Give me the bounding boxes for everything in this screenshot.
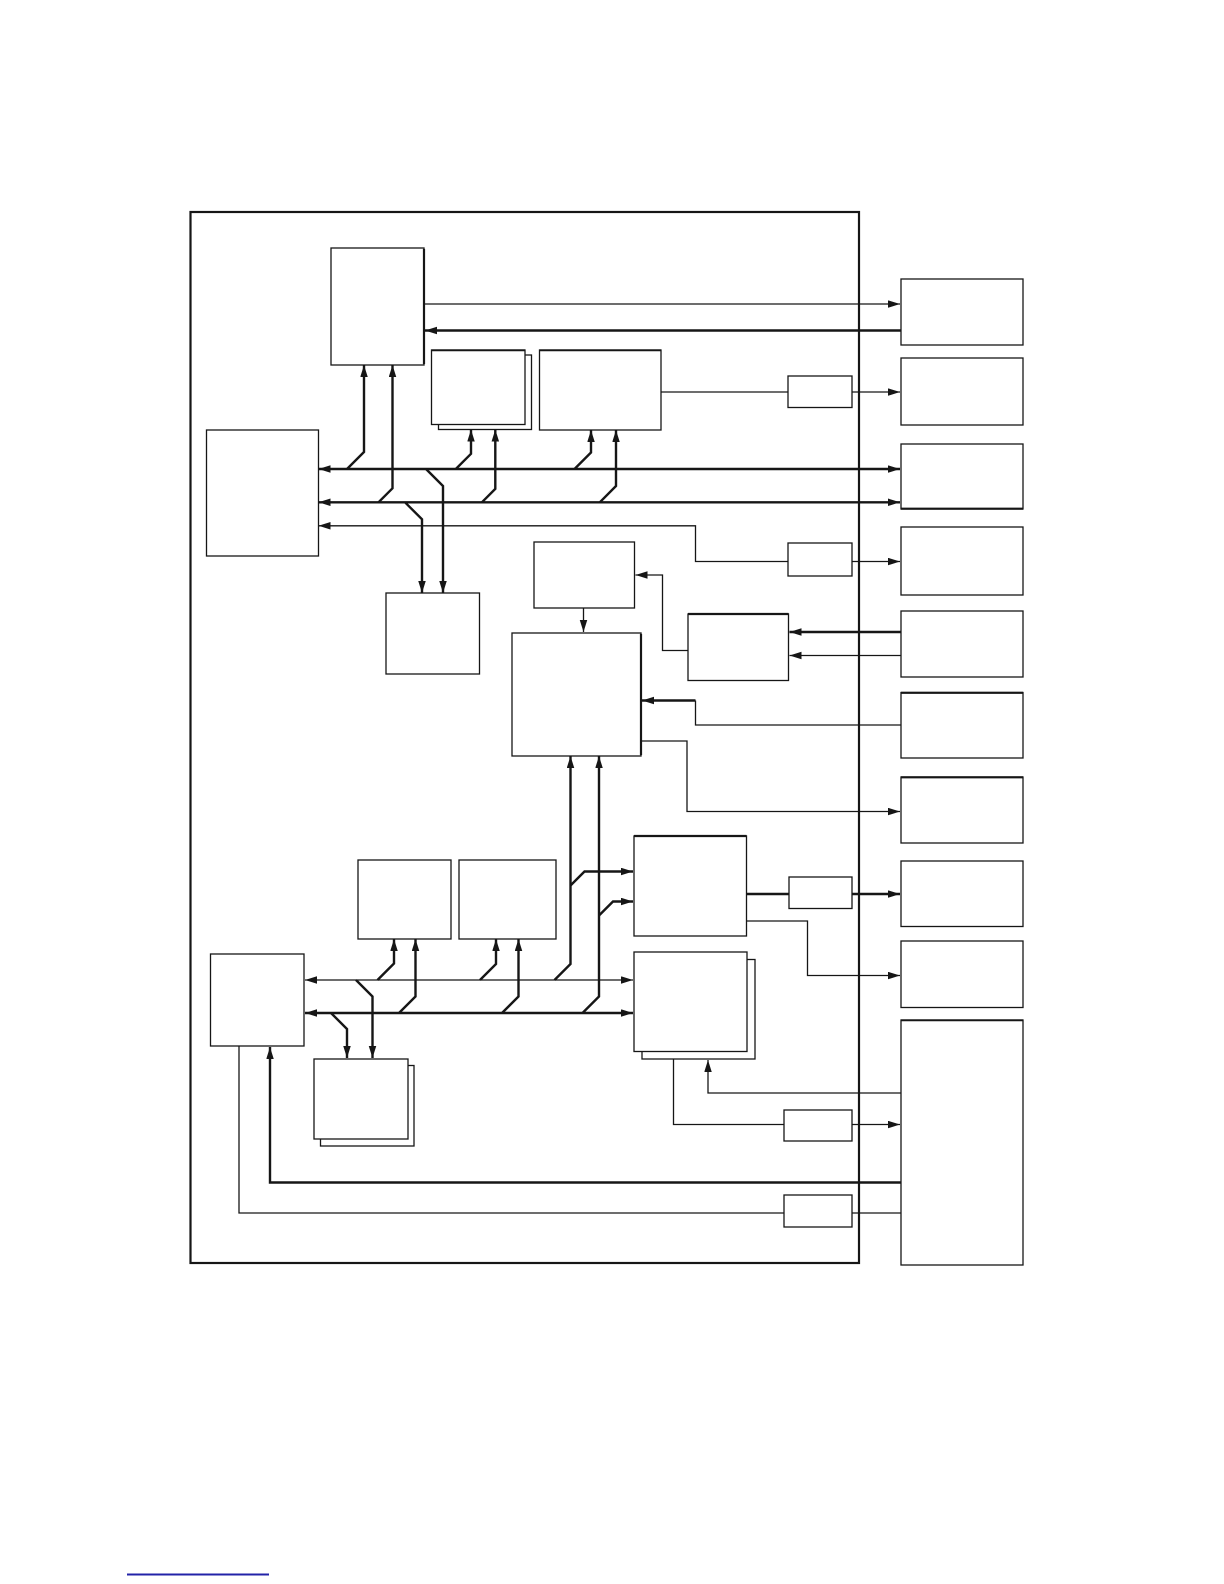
wire tap bus5 to G — [399, 939, 416, 1013]
block A — [331, 248, 424, 365]
wire tap bus4 to G — [378, 939, 395, 980]
block N — [540, 350, 662, 430]
wire branch to K upper — [571, 872, 634, 886]
wire tap bus4 to J — [356, 980, 373, 1058]
wire tap bus1 to C — [426, 469, 443, 593]
wire D to R7 — [641, 741, 900, 812]
wire tap bus4 to H — [480, 939, 496, 980]
wire tap bus1 to A — [347, 365, 364, 469]
wire branch to K lower — [599, 902, 633, 916]
block R5 — [901, 611, 1023, 677]
block M stacked pages — [439, 355, 532, 430]
block E — [534, 542, 635, 608]
wire tap bus2 to C — [405, 502, 422, 593]
wire tap bus2 to N — [600, 430, 616, 502]
block R3 — [901, 444, 1023, 509]
wire tap bus2 to M — [482, 430, 495, 503]
label box S1 — [788, 376, 852, 408]
wire A to R1 — [424, 303, 900, 305]
wire tap bus5 to D — [583, 756, 600, 1013]
label box S3 — [789, 877, 852, 909]
block B — [207, 430, 319, 556]
wire tap bus4 to D — [555, 756, 571, 980]
block R7 — [901, 777, 1023, 843]
block K — [634, 836, 747, 936]
wire tap bus5 to H — [502, 939, 519, 1013]
wire R6 to D — [696, 701, 902, 726]
wire bus4 I to L — [305, 979, 633, 981]
wire R1 to A — [425, 329, 901, 331]
wire K to R8 via S3 — [747, 893, 901, 895]
block D — [512, 633, 641, 756]
wire R10 to I — [270, 1047, 901, 1183]
wire bus3 B to R4 via S2 — [319, 526, 901, 562]
label box S4 — [784, 1110, 852, 1141]
wire L to R10 via S4 — [674, 1059, 901, 1125]
wire N to R2 via S1 — [661, 391, 900, 393]
wire tap bus1 to M — [456, 430, 471, 470]
hyperlink underline — [127, 1574, 269, 1576]
block R4 — [901, 527, 1023, 595]
wire E to D — [583, 608, 585, 632]
block R1 — [901, 279, 1023, 345]
block R6 — [901, 693, 1023, 759]
wire R5 to F lower — [790, 655, 902, 657]
wire tap bus5 to J — [331, 1013, 347, 1058]
wire K to R9 — [747, 921, 901, 976]
label box S5 — [784, 1195, 852, 1227]
label box S2 — [788, 543, 852, 576]
wire bus5 I to L — [305, 1012, 633, 1014]
block R10 — [901, 1020, 1023, 1265]
block H — [459, 860, 556, 939]
block C — [386, 593, 480, 674]
wire R10 to L — [708, 1060, 901, 1093]
block R2 — [901, 358, 1023, 425]
block R8 — [901, 861, 1023, 927]
block I — [211, 954, 305, 1046]
block G — [358, 860, 451, 939]
block R9 — [901, 941, 1023, 1008]
wire I to R10 via S5 — [239, 1046, 901, 1213]
wire R6 to D arrow segment — [642, 699, 696, 701]
wire bus2 B to R3 — [319, 501, 901, 503]
block F — [688, 614, 789, 681]
wire F to E — [636, 575, 689, 651]
wire tap bus1 to N — [575, 430, 592, 469]
wire R5 to F upper — [790, 631, 902, 633]
block L stacked pages — [642, 960, 755, 1060]
wire tap bus2 to A — [379, 365, 393, 502]
wire bus1 B to R3 — [319, 468, 901, 470]
block J stacked pages — [321, 1066, 415, 1147]
